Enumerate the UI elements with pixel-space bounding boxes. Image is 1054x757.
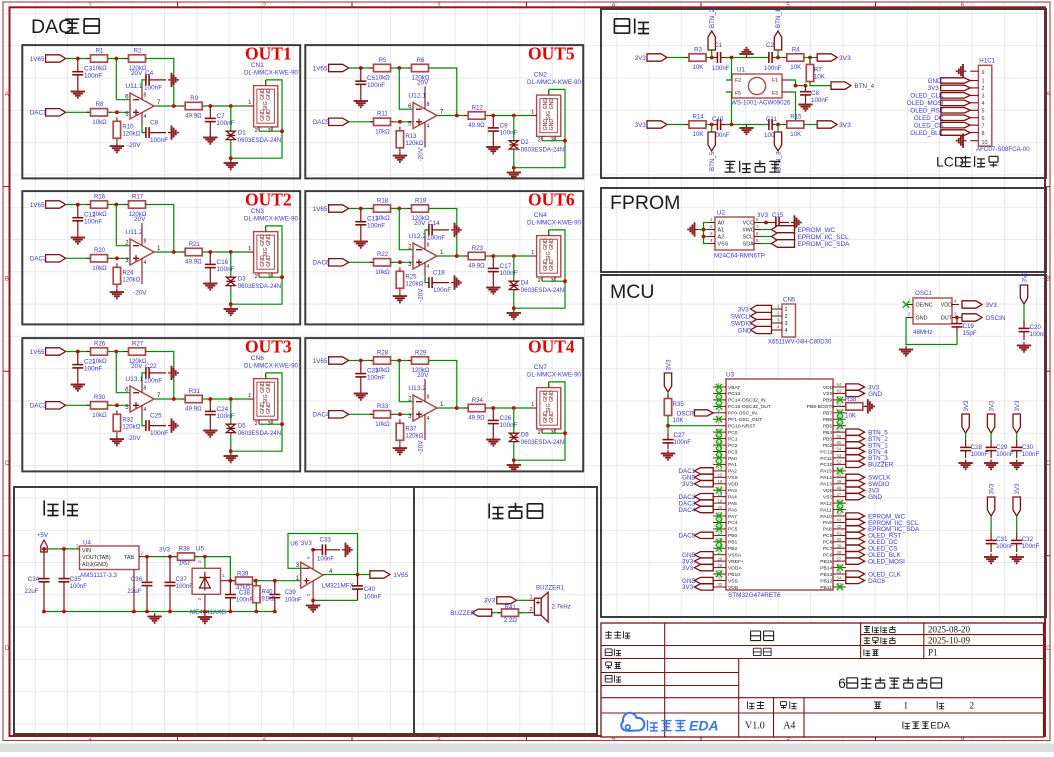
wire <box>772 329 776 331</box>
svg-text:-20V: -20V <box>133 290 147 297</box>
svg-text:U6: U6 <box>290 541 298 548</box>
capacitor C33 <box>313 544 340 555</box>
svg-text:PC14-OSC32_IN: PC14-OSC32_IN <box>728 398 766 404</box>
svg-text:52: 52 <box>837 460 842 465</box>
resistor R7 <box>806 61 825 86</box>
svg-text:43: 43 <box>837 518 842 523</box>
resistor R14 <box>685 113 710 138</box>
junction <box>229 302 233 306</box>
svg-text:5: 5 <box>982 109 985 115</box>
svg-text:D: D <box>5 646 10 652</box>
svg-text:100nF: 100nF <box>996 451 1014 458</box>
section box 电源 <box>14 487 414 734</box>
svg-text:C34: C34 <box>28 576 40 583</box>
svg-text:C37: C37 <box>176 576 188 583</box>
ground <box>486 436 500 446</box>
wire <box>726 124 768 126</box>
svg-text:CN2: CN2 <box>534 72 548 79</box>
svg-text:PC7: PC7 <box>823 546 833 552</box>
svg-text:GND: GND <box>266 109 272 121</box>
net port BTN_4 <box>846 448 888 455</box>
svg-text:3V3: 3V3 <box>757 212 769 219</box>
svg-text:PC9: PC9 <box>823 533 833 539</box>
capacitor C36 <box>142 557 153 612</box>
svg-text:8: 8 <box>427 395 430 401</box>
svg-text:D3: D3 <box>238 275 246 282</box>
wire <box>259 423 282 425</box>
svg-text:0603ESDA-24N: 0603ESDA-24N <box>521 287 564 294</box>
resistor R10 <box>113 117 140 142</box>
wire <box>667 57 689 59</box>
resistor R28 <box>370 349 395 374</box>
junction <box>115 256 119 260</box>
svg-text:1V65: 1V65 <box>30 56 45 63</box>
junction <box>280 275 284 279</box>
svg-text:-20V: -20V <box>127 142 141 149</box>
wire <box>513 408 515 432</box>
ground <box>739 48 753 58</box>
net port BUZZER <box>450 609 492 617</box>
net port 3V3 <box>484 597 517 605</box>
svg-text:OLED_BLK: OLED_BLK <box>910 130 943 137</box>
svg-text:15pF: 15pF <box>963 330 977 337</box>
svg-text:PA9: PA9 <box>823 520 832 526</box>
wire <box>761 222 766 224</box>
TVS diode D6 <box>509 431 564 446</box>
svg-text:VSS: VSS <box>718 242 729 248</box>
no-connect X <box>716 448 722 454</box>
connector CN2 <box>531 89 561 143</box>
net port DAC5 <box>679 532 714 539</box>
svg-text:SWDIO: SWDIO <box>731 320 752 327</box>
net port BTN_1 <box>774 8 782 50</box>
svg-text:PB3: PB3 <box>823 436 833 442</box>
wire <box>774 124 787 126</box>
net port EPROM_IIC_SCL <box>772 233 795 241</box>
svg-text:2: 2 <box>538 430 541 436</box>
svg-text:CN7: CN7 <box>534 364 548 371</box>
svg-text:48: 48 <box>837 485 842 490</box>
svg-text:U1: U1 <box>737 67 745 74</box>
ground <box>791 215 801 229</box>
svg-text:GND: GND <box>916 316 928 322</box>
svg-text:100nF: 100nF <box>217 413 235 420</box>
svg-text:100nF: 100nF <box>811 97 829 104</box>
svg-text:PA2: PA2 <box>728 469 737 475</box>
svg-text:PB0: PB0 <box>728 533 738 539</box>
connector CN4 <box>531 230 561 284</box>
ground <box>984 460 998 470</box>
ground <box>739 125 753 135</box>
svg-text:BUZZER1: BUZZER1 <box>536 585 565 592</box>
MCU U3 STM32G474RET6 <box>713 372 846 591</box>
svg-text:C32: C32 <box>1022 536 1034 543</box>
svg-text:DAC4: DAC4 <box>679 507 696 514</box>
svg-text:R10: R10 <box>122 123 134 130</box>
section title DAC输出 <box>31 16 99 38</box>
resistor R20 <box>87 247 112 272</box>
wire <box>349 413 373 415</box>
svg-text:DAC6: DAC6 <box>868 578 885 585</box>
svg-text:63: 63 <box>837 389 842 394</box>
section box MCU <box>601 275 1046 617</box>
title OUT1 <box>245 44 292 64</box>
junction <box>397 66 401 70</box>
ground <box>1010 460 1024 470</box>
net port 3V3 <box>817 54 837 61</box>
capacitor C3 <box>72 59 83 89</box>
svg-text:OE/NC: OE/NC <box>916 303 933 309</box>
wire <box>230 106 232 130</box>
ground <box>688 222 698 236</box>
junction <box>702 235 706 239</box>
junction <box>356 573 360 577</box>
svg-text:1: 1 <box>531 110 534 116</box>
svg-text:120kΩ: 120kΩ <box>122 276 140 283</box>
svg-text:3V3: 3V3 <box>484 598 496 605</box>
svg-text:GND: GND <box>549 119 555 131</box>
svg-text:PB8-BOOT0: PB8-BOOT0 <box>807 404 835 410</box>
svg-text:VSS: VSS <box>728 578 739 584</box>
capacitor C24 <box>205 399 216 427</box>
junction <box>512 166 516 170</box>
wire <box>1016 433 1018 440</box>
junction <box>229 156 233 160</box>
capacitor C10 <box>713 119 726 130</box>
TVS diode D4 <box>509 279 564 294</box>
section title 交互 <box>614 18 649 33</box>
shunt ref U5 ME4041AXG <box>192 560 230 612</box>
svg-text:2: 2 <box>777 311 780 316</box>
ground <box>203 427 217 437</box>
svg-text:5: 5 <box>306 556 311 559</box>
junction <box>172 397 176 401</box>
svg-text:R23: R23 <box>472 245 484 252</box>
net port BTN_3 <box>774 132 782 171</box>
svg-text:AMS1117-3.3: AMS1117-3.3 <box>80 572 117 579</box>
net port SWCLK <box>731 312 772 320</box>
wire <box>513 116 515 140</box>
svg-text:3V3: 3V3 <box>839 55 851 62</box>
svg-text:R17: R17 <box>132 193 144 200</box>
svg-text:3: 3 <box>76 544 79 549</box>
wire output <box>323 574 370 576</box>
svg-text:EPROM_IIC_SCL: EPROM_IIC_SCL <box>798 234 850 241</box>
net port OLED_RST <box>910 108 970 115</box>
wire <box>772 315 776 317</box>
svg-text:OLED_RST: OLED_RST <box>910 108 943 115</box>
svg-text:C15: C15 <box>772 212 784 219</box>
svg-text:54: 54 <box>837 447 842 452</box>
svg-text:R12: R12 <box>472 104 484 111</box>
net port GND <box>682 577 713 584</box>
junction <box>229 397 233 401</box>
svg-text:GND: GND <box>868 494 882 501</box>
ground <box>306 602 320 612</box>
svg-text:3V3: 3V3 <box>1014 483 1021 495</box>
svg-text:F1: F1 <box>772 78 778 84</box>
junction <box>115 110 119 114</box>
junction <box>273 610 277 614</box>
no-connect X <box>716 487 722 493</box>
wire <box>542 140 565 142</box>
svg-text:CN6: CN6 <box>251 355 265 362</box>
wire supply+ <box>142 373 146 380</box>
svg-text:PA0: PA0 <box>728 456 737 462</box>
svg-text:GND: GND <box>266 88 272 100</box>
wire <box>906 318 957 345</box>
net port BTN_5 <box>708 132 716 171</box>
net port 1V65 <box>313 205 349 213</box>
wire <box>788 80 796 86</box>
svg-text:10kΩ: 10kΩ <box>375 128 390 135</box>
svg-text:PA3: PA3 <box>728 488 737 494</box>
svg-text:R7: R7 <box>814 67 822 74</box>
net port 3V3 <box>1020 271 1028 304</box>
svg-text:PB14: PB14 <box>820 565 832 571</box>
wire <box>667 124 689 126</box>
svg-text:BTN_4: BTN_4 <box>855 83 875 90</box>
svg-text:SIG: SIG <box>263 101 269 110</box>
ground <box>110 289 124 299</box>
svg-text:X6511WV-04H-C80D30: X6511WV-04H-C80D30 <box>768 340 832 346</box>
wire <box>772 322 776 324</box>
wire shield <box>514 230 565 308</box>
svg-text:A0: A0 <box>718 221 725 227</box>
svg-text:10kΩ: 10kΩ <box>92 211 107 218</box>
wire <box>437 407 468 409</box>
capacitor C13 <box>355 209 366 239</box>
no-connect X <box>837 416 843 422</box>
wire <box>349 360 373 362</box>
svg-text:PA4: PA4 <box>728 494 737 500</box>
net port EPROM_IIC_SCL <box>846 519 919 527</box>
ground <box>354 238 368 248</box>
wire <box>108 204 128 206</box>
svg-text:VREF+: VREF+ <box>728 559 744 565</box>
svg-text:15: 15 <box>718 473 723 478</box>
svg-text:BTN_1: BTN_1 <box>775 8 782 28</box>
svg-text:R34: R34 <box>472 397 484 404</box>
svg-text:+5V: +5V <box>37 532 49 539</box>
svg-text:PC0: PC0 <box>728 430 738 436</box>
net port DAC2 <box>30 255 66 263</box>
net port 3V3 <box>846 487 880 494</box>
net port OLED_DC <box>846 539 898 547</box>
net port DAC4 <box>679 506 714 514</box>
svg-text:R39: R39 <box>237 571 249 578</box>
wire <box>698 229 704 231</box>
net port DAC1 <box>30 109 66 117</box>
svg-text:CN5: CN5 <box>783 297 796 304</box>
svg-text:PA12: PA12 <box>820 501 832 507</box>
junction <box>491 406 495 410</box>
junction <box>764 221 768 225</box>
svg-text:10K: 10K <box>693 131 704 138</box>
svg-text:R41: R41 <box>505 604 517 611</box>
wire <box>761 229 772 231</box>
ground <box>1017 342 1031 352</box>
capacitor C14 <box>429 224 450 235</box>
net port OLED_MOSI <box>907 100 971 107</box>
svg-text:PA7: PA7 <box>728 514 737 520</box>
resistor R38 <box>842 403 867 410</box>
junction <box>114 57 118 61</box>
svg-text:DAC5: DAC5 <box>679 533 696 540</box>
capacitor C39 <box>269 581 280 612</box>
svg-text:10K: 10K <box>790 131 801 138</box>
resistor R16 <box>87 193 112 218</box>
wire <box>777 125 779 133</box>
wire <box>704 229 709 231</box>
svg-text:R1: R1 <box>96 47 104 54</box>
svg-text:C27: C27 <box>674 432 686 439</box>
TVS diode D3 <box>226 275 281 290</box>
wire <box>108 58 128 60</box>
junction <box>114 350 118 354</box>
connector CN1 <box>248 80 278 134</box>
svg-text:R29: R29 <box>415 349 427 356</box>
svg-text:GND: GND <box>549 238 555 250</box>
svg-text:R31: R31 <box>189 388 201 395</box>
net port OLED_MOSI <box>846 558 905 565</box>
svg-text:10kΩ: 10kΩ <box>92 412 107 419</box>
svg-text:C22: C22 <box>145 363 157 370</box>
svg-text:R37: R37 <box>405 425 417 432</box>
wire feedback <box>428 209 456 257</box>
svg-text:B: B <box>5 277 9 283</box>
ground <box>393 152 407 162</box>
wire <box>230 287 232 304</box>
resistor R13 <box>396 127 423 152</box>
title OUT2 <box>245 190 292 210</box>
svg-text:OLED_CS: OLED_CS <box>914 122 943 129</box>
svg-text:1: 1 <box>248 393 251 399</box>
svg-text:100nF: 100nF <box>144 85 162 92</box>
svg-text:2.2Ω: 2.2Ω <box>504 617 518 624</box>
capacitor C31 <box>986 532 997 552</box>
title block <box>601 623 1044 737</box>
svg-text:VOUT(TAB): VOUT(TAB) <box>82 555 111 561</box>
svg-text:C2: C2 <box>766 42 774 49</box>
svg-text:U13.2: U13.2 <box>408 385 426 392</box>
svg-text:R38: R38 <box>179 546 191 553</box>
section title 电源 <box>44 500 78 515</box>
oscillator OSC1 <box>906 290 959 324</box>
svg-text:100nF: 100nF <box>217 120 235 127</box>
wire <box>204 557 206 569</box>
wire <box>108 351 128 353</box>
svg-text:100nF: 100nF <box>712 65 730 72</box>
switch U1 <box>726 67 788 99</box>
svg-text:DL-MMCX-KWE-90: DL-MMCX-KWE-90 <box>527 372 582 379</box>
ground <box>71 381 85 391</box>
svg-text:20: 20 <box>718 505 723 510</box>
wire <box>349 121 373 123</box>
svg-text:R4: R4 <box>792 46 800 53</box>
svg-text:1kΩ: 1kΩ <box>179 560 191 567</box>
svg-text:R35: R35 <box>673 401 685 408</box>
svg-text:1: 1 <box>157 245 161 252</box>
junction <box>491 254 495 258</box>
svg-text:C28: C28 <box>971 444 983 451</box>
junction <box>229 579 233 583</box>
svg-text:3V3: 3V3 <box>159 547 171 554</box>
svg-text:1V65: 1V65 <box>313 206 328 213</box>
svg-text:16: 16 <box>718 479 723 484</box>
svg-text:PC2: PC2 <box>728 443 738 449</box>
svg-text:47: 47 <box>837 492 842 497</box>
wire <box>761 243 772 245</box>
svg-text:F2: F2 <box>735 78 741 84</box>
svg-text:10K: 10K <box>814 74 825 81</box>
svg-text:2: 2 <box>255 421 258 427</box>
no-connect X <box>716 384 722 390</box>
svg-text:1: 1 <box>982 79 985 85</box>
svg-text:U5: U5 <box>196 546 204 553</box>
net port GND <box>928 78 971 85</box>
wire <box>667 392 669 399</box>
svg-text:OUT2: OUT2 <box>245 190 292 210</box>
svg-text:100nF: 100nF <box>317 557 334 563</box>
wire <box>1023 304 1025 320</box>
junction <box>512 406 516 410</box>
wire feedback <box>428 361 456 409</box>
ground <box>224 306 238 316</box>
svg-text:DL-MMCX-KWE-90: DL-MMCX-KWE-90 <box>244 363 299 370</box>
svg-text:7: 7 <box>157 392 161 399</box>
svg-text:28: 28 <box>718 556 723 561</box>
capacitor C29 <box>986 440 997 458</box>
svg-text:R16: R16 <box>94 193 106 200</box>
svg-text:6: 6 <box>756 231 759 236</box>
svg-text:1V65: 1V65 <box>30 349 45 356</box>
svg-text:10kΩ: 10kΩ <box>375 367 390 374</box>
section box 交互 <box>601 9 1046 178</box>
no-connect X <box>716 519 722 526</box>
ground <box>203 134 217 144</box>
junction <box>776 123 780 127</box>
svg-text:3V3: 3V3 <box>1014 400 1021 412</box>
net port DAC5 <box>313 118 349 126</box>
svg-text:10kΩ: 10kΩ <box>92 119 107 126</box>
svg-text:PB15: PB15 <box>820 559 832 565</box>
wire <box>485 115 530 117</box>
svg-text:53: 53 <box>837 453 842 458</box>
section box OUT2 <box>22 191 300 324</box>
svg-text:GND: GND <box>266 402 272 414</box>
section box OUT6 <box>305 191 583 324</box>
net port 3V3 <box>846 384 880 391</box>
junction <box>132 610 136 614</box>
svg-text:PB12: PB12 <box>820 578 832 584</box>
svg-text:3V3: 3V3 <box>988 400 995 412</box>
resistor R11 <box>370 111 395 136</box>
wire <box>43 549 45 552</box>
wire <box>517 599 528 601</box>
svg-text:R8: R8 <box>96 101 104 108</box>
svg-text:3: 3 <box>197 598 203 601</box>
svg-text:SIG: SIG <box>546 111 552 120</box>
svg-text:PC12: PC12 <box>820 449 833 455</box>
svg-text:VSS: VSS <box>823 494 834 500</box>
junction <box>145 610 149 614</box>
svg-text:LM321MFX: LM321MFX <box>322 583 354 590</box>
wire <box>349 261 373 263</box>
title OUT3 <box>245 337 292 357</box>
label LCD显示屏 <box>936 154 998 170</box>
no-connect X <box>716 455 722 461</box>
